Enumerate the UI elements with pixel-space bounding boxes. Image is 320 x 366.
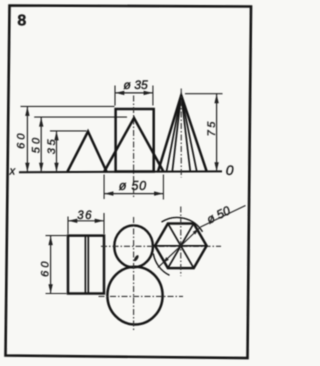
dimension 36 line [68,219,104,223]
prism top view (rectangle 36 wide) [68,236,104,294]
svg-text:x: x [9,166,16,178]
svg-text:ø 50: ø 50 [119,179,147,193]
extension line 75 level [185,93,223,95]
dimension 60 line (top view) [48,236,52,294]
svg-text:ø 50: ø 50 [204,203,232,226]
frame border [6,6,252,359]
dimension Ø50 line (front view) [104,191,163,195]
centre line horizontal (cone circle) [99,295,184,297]
dimension 36 extension lines [67,217,69,235]
dimension Ø50 extension lines (below axis) [103,175,105,200]
svg-text:50: 50 [31,135,43,154]
centre line horizontal (cylinder/hexagon row) [101,245,221,247]
wedge prism front view (triangle h=35) [68,132,107,172]
circumscribed circle arc top [162,217,203,231]
svg-text:60: 60 [16,130,28,149]
cone front view (triangle h=50) [104,118,163,172]
leader line Ø50 diameter segment (hexagon) [158,227,201,268]
centre line pyramid axis [180,89,182,178]
cylinder front view (rectangle) [116,109,154,172]
centre line vertical (circles) [133,217,135,330]
centre line cylinder/cone axis [133,96,135,199]
svg-text:35: 35 [46,137,58,154]
svg-text:ø 35: ø 35 [123,78,148,92]
svg-text:8: 8 [17,13,26,30]
circumscribed circle arc bottom-left [153,254,169,276]
svg-text:75: 75 [206,119,218,136]
pyramid top view hexagon [155,224,207,269]
ink smudge between circles [133,254,139,262]
pyramid edges (spokes) [155,224,207,269]
extension line 50 level [34,116,127,118]
centre line vertical (hexagon) [180,207,182,277]
hexagonal pyramid front view (h=75) [158,95,207,171]
dimension 75 (pyramid height) [214,94,218,172]
prism ridge edges [84,236,86,294]
svg-text:0: 0 [226,162,234,178]
dimension Ø35 extension lines [114,86,116,106]
dimension 50 (front view height) [39,117,43,172]
cone top view (large circle) [107,267,162,325]
dimension 35 (front view height) [54,131,58,172]
svg-text:60: 60 [39,258,51,277]
cylinder top view (small circle) [114,225,153,267]
svg-text:36: 36 [77,210,93,222]
extension line 60 level [21,105,115,107]
dimension Ø35 line [115,91,153,95]
leader tail Ø50 [201,206,246,228]
extension line 35 level [50,130,87,132]
x axis baseline [19,170,222,173]
dimension 60 (front view height) [25,106,29,172]
dimension 60 extension lines (top view) [46,235,67,237]
